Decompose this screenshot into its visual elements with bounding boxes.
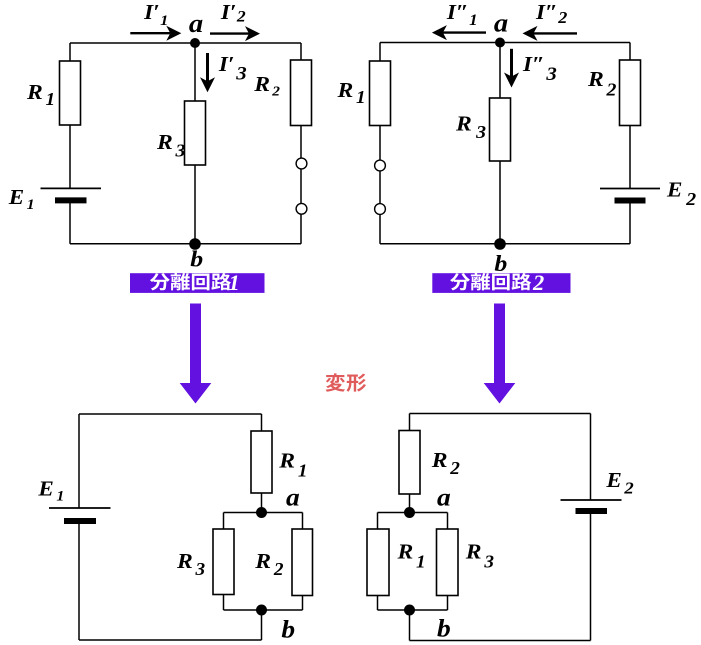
wire stub R3-top BR <box>447 513 449 530</box>
wire bottom BR <box>410 640 591 642</box>
wire left-top BR <box>409 414 411 431</box>
node b TL <box>189 238 201 250</box>
wire stub R1-top BR <box>377 513 379 530</box>
wire R1-a BL <box>261 493 263 513</box>
wire top BR <box>410 413 591 415</box>
title text 分離回路1 <box>150 273 231 291</box>
svg-text:a: a <box>437 484 451 512</box>
title text 分離回路2 <box>450 273 531 291</box>
svg-text:a: a <box>494 9 509 38</box>
svg-text:b: b <box>190 247 203 273</box>
wire a-horizontal BL <box>224 512 303 514</box>
wire right-bot TR <box>629 202 631 244</box>
wire stub R2-top BL <box>302 513 304 530</box>
resistor R2 (top-right) <box>620 60 641 126</box>
resistor R1 (top-left) <box>60 61 81 125</box>
node a TL <box>190 38 200 48</box>
wire left-bot BL <box>78 521 80 640</box>
svg-text:b: b <box>437 615 451 643</box>
wire right-mid TL <box>300 126 302 159</box>
resistor R2 (bottom-left) <box>292 529 313 596</box>
wire stub R3-bot BL <box>223 595 225 611</box>
open terminal upper TL <box>296 158 307 169</box>
node b TR <box>494 238 506 250</box>
wire stub R2-bot BL <box>302 596 304 611</box>
node a TR <box>495 38 505 48</box>
current arrow I'3 <box>200 53 215 92</box>
node a BL <box>256 507 267 518</box>
battery E1 (top-left) <box>41 188 102 200</box>
resistor R1 (top-right) <box>370 61 391 126</box>
node a BR <box>404 507 415 518</box>
wire top TR <box>380 42 630 44</box>
transform arrow right (purple) <box>484 304 516 404</box>
open terminal lower TL <box>296 203 307 214</box>
wire left-top TL <box>69 43 71 61</box>
wire left-top TR <box>379 43 381 62</box>
wire left-mid TL <box>69 125 71 188</box>
wire right-mid2 TL <box>300 169 302 204</box>
wire top TL <box>70 42 301 44</box>
wire b-down BL <box>261 610 263 640</box>
current arrow I'2 <box>210 26 260 41</box>
wire left-bot TR <box>379 214 381 243</box>
wire right-top TR <box>629 43 631 61</box>
wire stub R1-bot BR <box>377 596 379 611</box>
wire top BL <box>79 413 262 415</box>
resistor R1 (bottom-left) <box>251 431 272 493</box>
resistor R2 (bottom-right) <box>399 431 420 495</box>
wire right-bot TL <box>300 214 302 244</box>
node b BL <box>256 605 267 616</box>
wire mid-top TR <box>499 43 501 99</box>
resistor R3 (bottom-left) <box>213 529 234 595</box>
wire right-top BL <box>261 414 263 431</box>
resistor R3 (top-right) <box>490 98 511 161</box>
wire mid-bot TL <box>194 165 196 244</box>
current arrow I'1 <box>130 26 181 41</box>
current arrow I''2 <box>523 26 578 41</box>
wire b-horizontal BL <box>224 609 303 611</box>
current arrow I''1 <box>432 25 486 40</box>
wire right-mid TR <box>629 126 631 189</box>
wire left-bot TL <box>69 200 71 244</box>
resistor R1 (bottom-right) <box>367 529 389 596</box>
wire bottom BL <box>79 639 262 641</box>
wire right-top BR <box>590 414 592 501</box>
wire left-top BL <box>78 414 80 508</box>
wire right-top TL <box>300 43 302 60</box>
wire stub R3-bot BR <box>447 596 449 611</box>
title box 分離回路2 <box>432 273 570 293</box>
wire b-horizontal BR <box>378 609 448 611</box>
resistor R2 (top-left) <box>291 60 312 126</box>
wire left-mid TR <box>379 126 381 161</box>
battery E2 (top-right) <box>600 189 660 201</box>
battery E1 (bottom-left) <box>49 508 111 521</box>
wire b-down BR <box>409 610 411 641</box>
wire mid-top TL <box>194 43 196 101</box>
wire bottom TR <box>380 243 630 245</box>
node b BR <box>404 605 415 616</box>
title box 分離回路1 <box>130 273 265 293</box>
svg-text:b: b <box>281 616 295 644</box>
wire bottom TL <box>70 243 301 245</box>
svg-text:2: 2 <box>532 270 544 295</box>
wire stub R3-top BL <box>223 513 225 530</box>
current arrow I''3 <box>504 49 519 88</box>
wire mid-bot TR <box>499 161 501 244</box>
open terminal upper TR <box>375 160 386 171</box>
resistor R3 (bottom-right) <box>437 529 459 596</box>
svg-text:b: b <box>494 251 507 277</box>
wire right-bot BR <box>590 511 592 641</box>
battery E2 (bottom-right) <box>561 500 622 511</box>
svg-text:a: a <box>286 484 300 512</box>
wire left-mid2 TR <box>379 171 381 204</box>
resistor R3 (top-left) <box>185 101 206 165</box>
wire a-horizontal BR <box>378 512 448 514</box>
svg-text:a: a <box>189 9 204 38</box>
svg-text:1: 1 <box>229 270 240 295</box>
label 変形 <box>326 373 366 391</box>
transform arrow left (purple) <box>180 304 212 404</box>
open terminal lower TR <box>375 204 386 215</box>
wire R2-a BR <box>409 494 411 513</box>
